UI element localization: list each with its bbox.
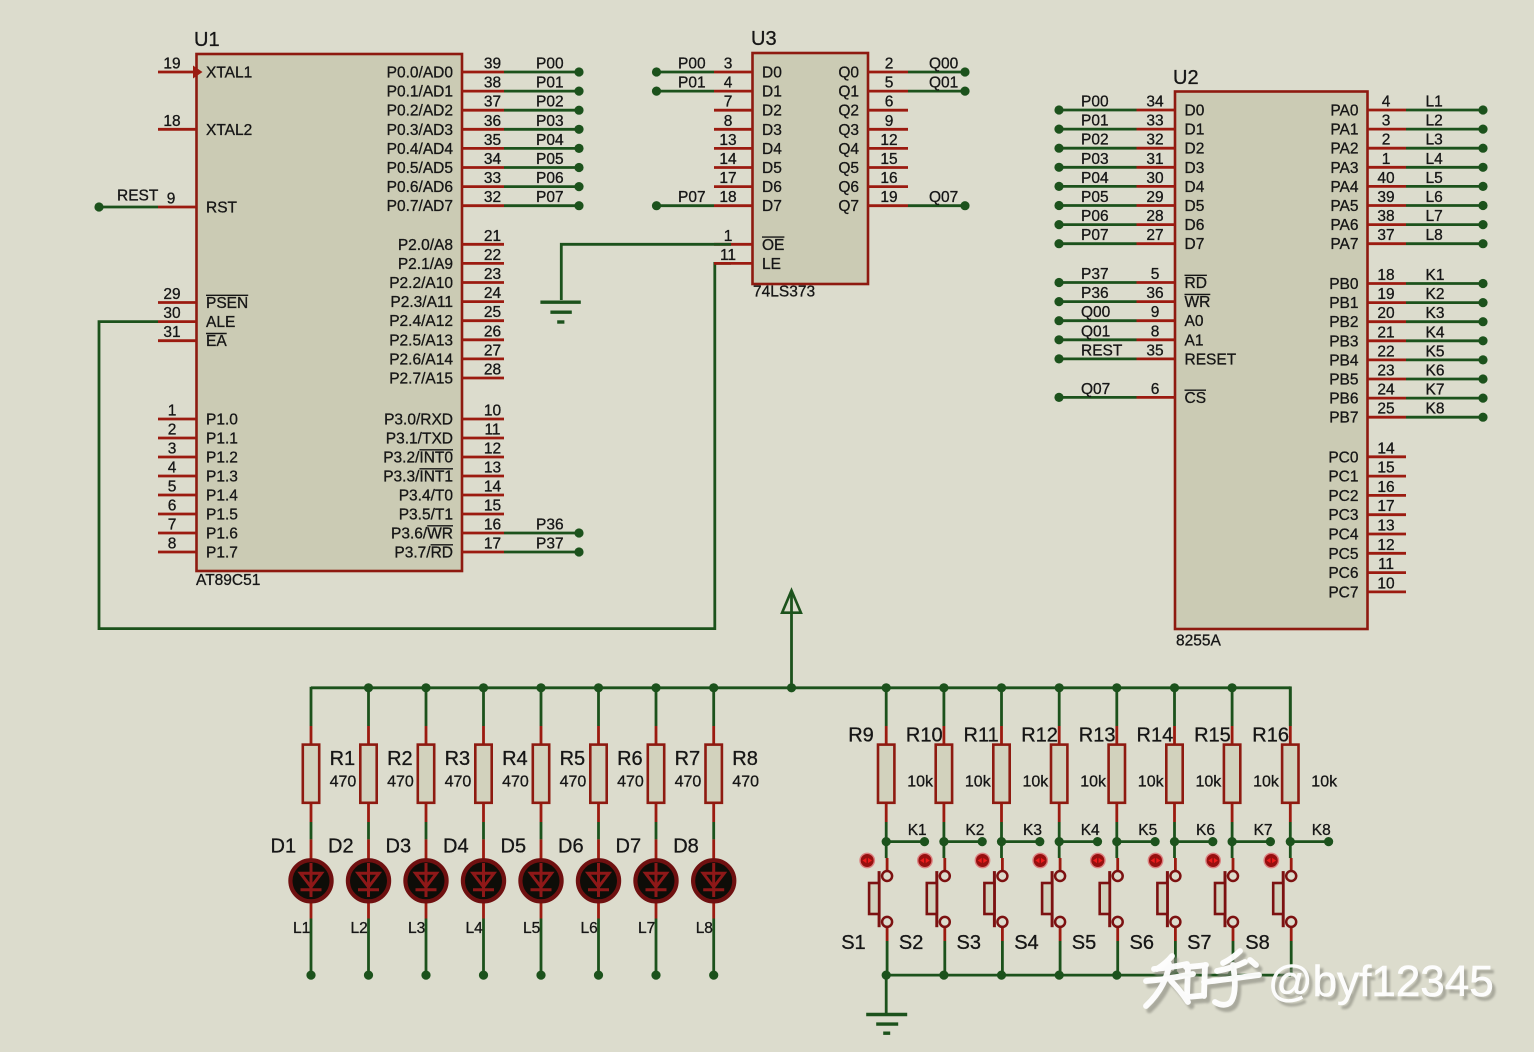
- svg-text:Q0: Q0: [838, 65, 859, 82]
- resistor R2: [360, 726, 376, 822]
- svg-text:P0.0/AD0: P0.0/AD0: [387, 65, 454, 82]
- svg-text:AT89C51: AT89C51: [196, 572, 260, 589]
- svg-text:13: 13: [484, 460, 501, 477]
- svg-text:XTAL1: XTAL1: [206, 65, 252, 82]
- wire bus to R10: [943, 687, 946, 726]
- svg-text:D6: D6: [762, 179, 782, 196]
- wire K5 row to S5: [1115, 842, 1118, 858]
- node REST terminal dot: [1054, 354, 1063, 363]
- node P06 terminal dot: [1054, 220, 1063, 229]
- watermark 知乎 @byf12345: [1149, 955, 1497, 1010]
- U2 pin 29 D5: [1137, 204, 1176, 207]
- U2 pin 35 RESET: [1137, 357, 1176, 360]
- svg-text:Q00: Q00: [1081, 304, 1111, 321]
- svg-text:U3: U3: [751, 28, 777, 50]
- push button S8: [1273, 858, 1296, 941]
- junction: K5 row: [1112, 837, 1121, 846]
- svg-text:26: 26: [484, 323, 501, 340]
- resistor R4: [475, 726, 491, 822]
- svg-text:470: 470: [502, 774, 529, 791]
- svg-text:P0.6/AD6: P0.6/AD6: [387, 179, 453, 196]
- svg-text:WR: WR: [1185, 294, 1211, 311]
- node P37 terminal dot: [574, 547, 583, 556]
- wire P01 to U2: [1059, 128, 1137, 131]
- node L8 terminal dot: [1478, 239, 1487, 248]
- wire R13 to K5 row: [1115, 822, 1118, 842]
- U1 pin 38 P0.1/AD1: [462, 90, 504, 93]
- svg-text:P1.1: P1.1: [206, 431, 238, 448]
- svg-text:S6: S6: [1130, 932, 1154, 954]
- U3 pin 11 LE: [714, 262, 753, 265]
- svg-text:K7: K7: [1426, 382, 1445, 399]
- junction: K2 row: [939, 837, 948, 846]
- wire K5 from U2 PB4: [1406, 358, 1483, 361]
- node P05 terminal dot: [574, 163, 583, 172]
- svg-text:7: 7: [168, 517, 177, 534]
- U2 pin 17 PC3: [1368, 513, 1407, 516]
- svg-text:D2: D2: [328, 836, 354, 858]
- svg-text:P05: P05: [536, 151, 564, 168]
- wire D8 to node L8: [712, 919, 715, 976]
- resistor R1: [303, 726, 319, 822]
- svg-text:PB2: PB2: [1329, 314, 1358, 331]
- svg-text:L7: L7: [638, 920, 655, 937]
- svg-text:D3: D3: [386, 836, 412, 858]
- svg-text:R1: R1: [330, 748, 356, 770]
- U3 pin 17 D6: [714, 185, 753, 188]
- U2 pin 36 WR: [1137, 300, 1176, 303]
- svg-text:K4: K4: [1426, 324, 1445, 341]
- svg-text:P36: P36: [1081, 285, 1109, 302]
- svg-text:19: 19: [1377, 286, 1394, 303]
- svg-text:U1: U1: [194, 29, 220, 51]
- svg-text:10k: 10k: [1080, 774, 1107, 791]
- node P01 terminal dot: [574, 87, 583, 96]
- U1 pin 26 P2.5/A13: [462, 338, 504, 341]
- junction: bus / branch: [939, 683, 948, 692]
- svg-text:36: 36: [484, 113, 501, 130]
- svg-text:11: 11: [720, 247, 736, 264]
- U3 pin 14 D5: [714, 166, 753, 169]
- node K6 terminal dot: [1478, 374, 1487, 383]
- resistor R15: [1224, 726, 1240, 822]
- U1 pin 11 P3.1/TXD: [462, 437, 504, 440]
- wire S7 to ground bus: [1232, 941, 1235, 975]
- svg-text:Q6: Q6: [838, 179, 859, 196]
- svg-text:5: 5: [1151, 266, 1160, 283]
- node Q01 terminal dot: [1054, 335, 1063, 344]
- svg-text:D6: D6: [1185, 217, 1205, 234]
- svg-text:PA3: PA3: [1330, 160, 1358, 177]
- svg-text:23: 23: [484, 266, 501, 283]
- U2 pin 4 PA0: [1368, 109, 1407, 112]
- junction: bus / branch: [651, 683, 660, 692]
- svg-text:R11: R11: [964, 725, 999, 747]
- U1 pin 15 P3.5/T1: [462, 513, 504, 516]
- U3 pin 15 Q5: [868, 166, 908, 169]
- U2 pin 1 PA3: [1368, 166, 1407, 169]
- node K3 terminal dot: [1035, 837, 1044, 846]
- node P00 terminal dot: [652, 67, 661, 76]
- wire S4 to ground bus: [1059, 941, 1062, 975]
- U1 pin 7 P1.6: [158, 532, 197, 535]
- svg-text:37: 37: [484, 94, 501, 111]
- svg-text:35: 35: [484, 132, 501, 149]
- svg-text:L7: L7: [1426, 208, 1443, 225]
- svg-text:38: 38: [484, 75, 501, 92]
- wire R4 to D4: [482, 822, 485, 839]
- svg-text:20: 20: [1377, 305, 1395, 322]
- svg-text:S3: S3: [957, 932, 981, 954]
- U1 pin 37 P0.2/AD2: [462, 109, 504, 112]
- wire R11 to K3 row: [1000, 822, 1003, 842]
- svg-text:P36: P36: [536, 517, 564, 534]
- junction: ground bus: [939, 971, 948, 980]
- U2 pin 34 D0: [1137, 109, 1176, 112]
- svg-text:8: 8: [724, 113, 733, 130]
- svg-text:P3.5/T1: P3.5/T1: [399, 507, 453, 524]
- wire S1 to ground bus: [886, 941, 889, 975]
- svg-text:Q7: Q7: [838, 198, 859, 215]
- wire bus to R13: [1115, 687, 1118, 726]
- svg-text:D0: D0: [762, 65, 782, 82]
- node L7 terminal dot: [1478, 220, 1487, 229]
- wire bus to R3: [425, 687, 428, 726]
- wire K3 row to S3: [1000, 842, 1003, 858]
- U2 pin 37 PA7: [1368, 242, 1407, 245]
- U1 pin 32 P0.7/AD7: [462, 204, 504, 207]
- svg-text:PB3: PB3: [1329, 333, 1358, 350]
- svg-text:31: 31: [1146, 151, 1163, 168]
- wire S3 to ground bus: [1001, 941, 1004, 975]
- svg-text:D3: D3: [762, 122, 782, 139]
- svg-text:K2: K2: [965, 822, 984, 839]
- node K3 terminal dot: [1478, 317, 1487, 326]
- wire K7 from U2 PB6: [1406, 397, 1483, 400]
- U2 pin 33 D1: [1137, 128, 1176, 131]
- svg-text:U2: U2: [1173, 67, 1199, 89]
- svg-text:D4: D4: [1185, 179, 1205, 196]
- wire REST to U2: [1059, 357, 1137, 360]
- node P05 terminal dot: [1054, 201, 1063, 210]
- U1 pin 10 P3.0/RXD: [462, 418, 504, 421]
- U1 pin 19 XTAL1: [158, 71, 197, 74]
- U2 pin 2 PA2: [1368, 147, 1407, 150]
- svg-text:K2: K2: [1426, 286, 1445, 303]
- svg-text:P1.6: P1.6: [206, 526, 238, 543]
- svg-text:P1.3: P1.3: [206, 469, 238, 486]
- svg-text:PA7: PA7: [1330, 236, 1358, 253]
- svg-text:K7: K7: [1254, 822, 1273, 839]
- wire P00 to U2: [1059, 109, 1137, 112]
- U2 pin 11 PC6: [1368, 571, 1407, 574]
- U2 pin 19 PB1: [1368, 301, 1407, 304]
- svg-text:R7: R7: [675, 748, 701, 770]
- push button S1: [869, 858, 892, 941]
- svg-text:P3.0/RXD: P3.0/RXD: [384, 412, 453, 429]
- resistor R11: [993, 726, 1009, 822]
- LED D7: [635, 839, 676, 918]
- wire D1 to node L1: [310, 919, 313, 976]
- node L4 terminal dot: [1478, 163, 1487, 172]
- svg-text:D8: D8: [673, 836, 699, 858]
- svg-text:R6: R6: [617, 748, 643, 770]
- svg-text:P2.3/A11: P2.3/A11: [390, 294, 453, 311]
- junction: bus / branch: [479, 683, 488, 692]
- U2 pin 25 PB7: [1368, 416, 1407, 419]
- U1 pin 14 P3.4/T0: [462, 494, 504, 497]
- svg-text:8: 8: [1151, 323, 1160, 340]
- ground (U3 OE): [540, 302, 580, 322]
- node L3 terminal dot: [1478, 144, 1487, 153]
- svg-text:P2.5/A13: P2.5/A13: [389, 332, 453, 349]
- svg-text:P1.7: P1.7: [206, 545, 238, 562]
- wire D5 to node L5: [540, 919, 543, 976]
- U1 pin 4 P1.3: [158, 475, 197, 478]
- resistor R10: [936, 726, 952, 822]
- resistor R13: [1109, 726, 1125, 822]
- svg-text:Q5: Q5: [838, 160, 859, 177]
- wire R1 to D1: [310, 822, 313, 839]
- wire K7 stub: [1232, 840, 1270, 843]
- wire R3 to D3: [425, 822, 428, 839]
- node P03 terminal dot: [1054, 163, 1063, 172]
- U1 pin 9 RST: [158, 206, 197, 209]
- svg-text:21: 21: [1377, 324, 1394, 341]
- svg-text:PA4: PA4: [1330, 179, 1359, 196]
- wire L3 from U2 PA2: [1406, 147, 1483, 150]
- svg-text:L4: L4: [466, 920, 484, 937]
- node P37 terminal dot: [1054, 278, 1063, 287]
- svg-text:P3.3/INT1: P3.3/INT1: [383, 469, 453, 486]
- svg-text:PA6: PA6: [1330, 217, 1358, 234]
- junction: K7 row: [1228, 837, 1237, 846]
- wire R2 to D2: [367, 822, 370, 839]
- wire R8 to D8: [712, 822, 715, 839]
- svg-text:1: 1: [1382, 151, 1391, 168]
- svg-text:A0: A0: [1185, 313, 1204, 330]
- svg-text:K8: K8: [1426, 401, 1445, 418]
- svg-text:P1.2: P1.2: [206, 450, 238, 467]
- svg-text:ALE: ALE: [206, 314, 235, 331]
- svg-text:470: 470: [617, 774, 644, 791]
- svg-text:P01: P01: [1081, 113, 1109, 130]
- junction: bus / branch: [594, 683, 603, 692]
- wire P36 to U2: [1059, 300, 1137, 303]
- node K5 terminal dot: [1151, 837, 1160, 846]
- wire P03 from U1: [504, 128, 579, 131]
- junction: K1 row: [882, 837, 891, 846]
- svg-text:35: 35: [1146, 342, 1163, 359]
- node K8 terminal dot: [1478, 413, 1487, 422]
- svg-text:PB6: PB6: [1329, 391, 1358, 408]
- junction: K4 row: [1055, 837, 1064, 846]
- svg-text:K3: K3: [1023, 822, 1042, 839]
- svg-text:8: 8: [168, 536, 177, 553]
- wire Q01 to U2: [1059, 338, 1137, 341]
- svg-text:A1: A1: [1185, 332, 1204, 349]
- svg-text:PA2: PA2: [1330, 141, 1358, 158]
- svg-text:D7: D7: [762, 198, 782, 215]
- node L5 terminal dot: [1478, 182, 1487, 191]
- svg-text:8255A: 8255A: [1176, 633, 1221, 650]
- node Q00 terminal dot: [1054, 316, 1063, 325]
- push button S2: [927, 858, 950, 941]
- svg-text:R10: R10: [906, 725, 943, 747]
- wire K6 stub: [1175, 840, 1213, 843]
- node P01 terminal dot: [1054, 125, 1063, 134]
- U2 pin 32 D2: [1137, 147, 1176, 150]
- wire K4 row to S4: [1058, 842, 1061, 858]
- svg-text:P00: P00: [1081, 94, 1109, 111]
- U1 pin 33 P0.6/AD6: [462, 185, 504, 188]
- svg-text:P01: P01: [678, 75, 706, 92]
- svg-text:40: 40: [1377, 170, 1395, 187]
- svg-text:R3: R3: [445, 748, 471, 770]
- svg-text:5: 5: [885, 75, 894, 92]
- wire bus to R8: [712, 687, 715, 726]
- junction: ground bus: [1228, 971, 1237, 980]
- svg-text:P0.4/AD4: P0.4/AD4: [387, 141, 454, 158]
- svg-text:L3: L3: [1426, 132, 1443, 149]
- U2 pin 5 RD: [1137, 281, 1176, 284]
- wire bus to R1: [310, 687, 313, 726]
- junction: bus / branch: [1055, 683, 1064, 692]
- resistor R9: [878, 726, 894, 822]
- node L5 terminal dot: [536, 971, 545, 980]
- U1 pin 27 P2.6/A14: [462, 357, 504, 360]
- svg-text:38: 38: [1377, 208, 1394, 225]
- svg-text:L1: L1: [1426, 94, 1443, 111]
- svg-text:P06: P06: [536, 170, 564, 187]
- wire P37 from U1: [504, 551, 579, 554]
- svg-text:P37: P37: [1081, 266, 1109, 283]
- LED D2: [348, 839, 389, 918]
- svg-text:L2: L2: [1426, 113, 1443, 130]
- U3 pin 5 Q1: [868, 90, 908, 93]
- node P04 terminal dot: [1054, 182, 1063, 191]
- svg-text:PSEN: PSEN: [206, 295, 248, 312]
- svg-text:37: 37: [1377, 227, 1394, 244]
- wire bus to R9: [885, 687, 888, 726]
- node P07 terminal dot: [574, 201, 583, 210]
- svg-text:18: 18: [1377, 267, 1394, 284]
- svg-text:13: 13: [1377, 518, 1394, 535]
- wire K4 from U2 PB3: [1406, 339, 1483, 342]
- svg-text:P02: P02: [1081, 132, 1109, 149]
- node K2 terminal dot: [978, 837, 987, 846]
- svg-text:16: 16: [880, 170, 897, 187]
- svg-text:6: 6: [1151, 381, 1160, 398]
- svg-text:K6: K6: [1196, 822, 1215, 839]
- node Q01 terminal dot: [960, 87, 969, 96]
- wire VCC bus right corner down to S8 branch: [1289, 686, 1292, 726]
- U3 pin 4 D1: [714, 90, 753, 93]
- node L3 terminal dot: [421, 971, 430, 980]
- resistor R16: [1282, 726, 1298, 822]
- wire bus to R7: [655, 687, 658, 726]
- U2 pin 21 PB3: [1368, 339, 1407, 342]
- U2 pin 9 A0: [1137, 319, 1176, 322]
- wire R5 to D5: [540, 822, 543, 839]
- svg-text:D7: D7: [616, 836, 642, 858]
- U1 pin 1 P1.0: [158, 418, 197, 421]
- svg-text:L8: L8: [1426, 227, 1443, 244]
- wire U3 OE to ground: [561, 244, 731, 300]
- wire L1 from U2 PA0: [1406, 109, 1483, 112]
- wire L7 from U2 PA6: [1406, 223, 1483, 226]
- S3 actuator marker: [975, 853, 989, 867]
- svg-text:P0.3/AD3: P0.3/AD3: [387, 122, 453, 139]
- U2 pin 30 D4: [1137, 185, 1176, 188]
- svg-text:14: 14: [1377, 440, 1395, 457]
- wire D2 to node L2: [367, 919, 370, 976]
- svg-text:Q4: Q4: [838, 141, 859, 158]
- svg-text:Q07: Q07: [1081, 381, 1110, 398]
- U1 pin 24 P2.3/A11: [462, 300, 504, 303]
- svg-text:10k: 10k: [1138, 774, 1165, 791]
- wire bus to R2: [367, 687, 370, 726]
- junction: bus / branch: [536, 683, 545, 692]
- U2 pin 39 PA5: [1368, 204, 1407, 207]
- wire R12 to K4 row: [1058, 822, 1061, 842]
- svg-text:K5: K5: [1426, 343, 1445, 360]
- U2 pin 3 PA1: [1368, 128, 1407, 131]
- junction: K3 row: [997, 837, 1006, 846]
- U1 pin 22 P2.1/A9: [462, 262, 504, 265]
- svg-text:PC7: PC7: [1328, 584, 1358, 601]
- svg-text:L6: L6: [581, 920, 598, 937]
- svg-text:P04: P04: [536, 132, 564, 149]
- svg-text:P01: P01: [536, 75, 564, 92]
- junction: bus / branch: [1228, 683, 1237, 692]
- svg-text:R13: R13: [1079, 725, 1116, 747]
- U3 pin 1 OE: [714, 243, 753, 246]
- svg-text:24: 24: [1377, 382, 1395, 399]
- U3 pin 2 Q0: [868, 71, 908, 74]
- svg-text:L1: L1: [293, 920, 310, 937]
- node P02 terminal dot: [1054, 144, 1063, 153]
- U2 pin 24 PB6: [1368, 397, 1407, 400]
- svg-text:L5: L5: [523, 920, 540, 937]
- svg-text:P07: P07: [1081, 227, 1109, 244]
- svg-text:P1.0: P1.0: [206, 412, 238, 429]
- node L2 terminal dot: [1478, 125, 1487, 134]
- wire K4 stub: [1059, 840, 1097, 843]
- svg-text:74LS373: 74LS373: [753, 284, 815, 301]
- LED D3: [405, 839, 446, 918]
- LED D8: [693, 839, 734, 918]
- svg-text:14: 14: [719, 151, 737, 168]
- wire P04 to U2: [1059, 185, 1137, 188]
- wire D3 to node L3: [425, 919, 428, 976]
- wire S2 to ground bus: [943, 941, 946, 975]
- LED D1: [290, 839, 331, 918]
- U3 pin 13 D4: [714, 147, 753, 150]
- node L7 terminal dot: [651, 971, 660, 980]
- U3 pin 8 D3: [714, 128, 753, 131]
- resistor R3: [418, 726, 434, 822]
- svg-text:D5: D5: [501, 836, 527, 858]
- node K4 terminal dot: [1093, 837, 1102, 846]
- wire VCC bus horizontal: [311, 686, 1290, 689]
- svg-text:PC6: PC6: [1328, 565, 1358, 582]
- LED D4: [463, 839, 504, 918]
- node P04 terminal dot: [574, 144, 583, 153]
- svg-text:R16: R16: [1252, 725, 1289, 747]
- wire P01 from U1: [504, 90, 579, 93]
- U2 pin 18 PB0: [1368, 282, 1407, 285]
